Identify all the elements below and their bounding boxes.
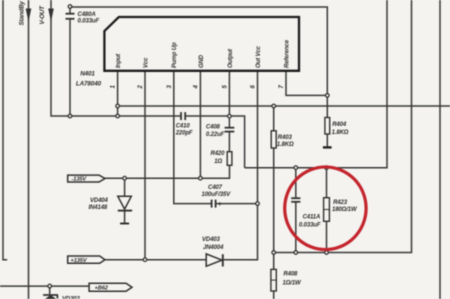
- svg-text:C407: C407: [208, 185, 223, 191]
- svg-text:IN4148: IN4148: [89, 205, 108, 211]
- svg-text:V-OUT: V-OUT: [39, 5, 46, 25]
- svg-text:LA78040: LA78040: [76, 80, 102, 87]
- svg-text:-135V: -135V: [72, 177, 88, 183]
- svg-text:R404: R404: [332, 122, 347, 128]
- svg-text:Out Vcc: Out Vcc: [256, 45, 262, 68]
- svg-text:R408: R408: [283, 272, 298, 278]
- svg-text:Pump Up: Pump Up: [172, 42, 178, 68]
- svg-text:0.033uF: 0.033uF: [299, 223, 321, 229]
- svg-text:Output: Output: [228, 48, 234, 68]
- svg-text:Input: Input: [116, 53, 122, 68]
- svg-text:StandBy: StandBy: [19, 1, 26, 26]
- svg-text:VD404: VD404: [90, 198, 109, 204]
- svg-text:180Ω/1W: 180Ω/1W: [332, 207, 358, 213]
- svg-text:R403: R403: [278, 135, 293, 141]
- svg-text:100uF/35V: 100uF/35V: [202, 192, 232, 198]
- svg-text:JN4004: JN4004: [203, 245, 224, 251]
- svg-text:+135V: +135V: [71, 258, 88, 264]
- svg-text:0.22uF: 0.22uF: [206, 132, 225, 138]
- svg-text:C408: C408: [206, 125, 221, 131]
- svg-text:220pF: 220pF: [175, 130, 193, 136]
- svg-text:1.8KΩ: 1.8KΩ: [332, 130, 349, 136]
- svg-text:Reference: Reference: [284, 39, 290, 68]
- svg-text:+B62: +B62: [95, 286, 109, 292]
- svg-text:1.8KΩ: 1.8KΩ: [277, 142, 294, 148]
- svg-text:C411A: C411A: [303, 215, 321, 221]
- svg-text:0.033uF: 0.033uF: [78, 18, 100, 24]
- svg-text:1Ω: 1Ω: [214, 159, 222, 165]
- svg-text:C410: C410: [176, 124, 191, 130]
- svg-text:1Ω/1W: 1Ω/1W: [283, 281, 303, 287]
- svg-text:Vcc: Vcc: [143, 57, 149, 68]
- svg-text:R420: R420: [211, 151, 226, 157]
- svg-text:N401: N401: [80, 70, 95, 77]
- svg-text:R423: R423: [333, 200, 348, 206]
- svg-text:C480A: C480A: [78, 12, 96, 18]
- svg-text:VD403: VD403: [202, 237, 221, 243]
- svg-text:GND: GND: [199, 54, 205, 68]
